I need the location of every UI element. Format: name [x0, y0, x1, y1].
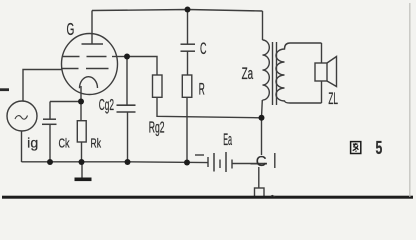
bottom-right tiny squiggle: [271, 195, 275, 196]
svg-text:Cg2: Cg2: [99, 97, 114, 114]
battery Ea: minus mark: [195, 154, 204, 156]
wire: lead down to bottom resistor: [258, 167, 260, 188]
ground bar: [75, 178, 92, 182]
resistor R body: [182, 75, 192, 97]
wire: C top lead: [187, 10, 189, 45]
wire: Ck top lead: [49, 102, 51, 120]
svg-text:ig: ig: [27, 135, 38, 151]
node: Rk-ground: [79, 159, 85, 165]
node: R-ground: [184, 160, 190, 166]
resistor Rg2 body: [153, 75, 163, 97]
svg-text:ZL: ZL: [328, 90, 338, 108]
wire: Ck bottom lead: [49, 124, 51, 162]
node: Ea rail / primary: [259, 115, 265, 121]
CJK glyph 图 drawn as strokes: [351, 142, 361, 154]
speaker ZL body: [315, 63, 327, 81]
speaker ZL leads: [321, 43, 323, 63]
wire: top plate rail: [92, 10, 263, 12]
resistor Rk leads: [80, 102, 82, 121]
resistor Rk body: [77, 121, 86, 142]
capacitor Ck plates: [43, 118, 56, 120]
node: grid: [124, 54, 130, 60]
wire: Cg2 bottom lead: [127, 112, 129, 162]
sine squiggle inside source: [15, 116, 28, 120]
svg-text:R: R: [199, 81, 205, 99]
transformer core: [272, 42, 274, 105]
bottom border line: [2, 196, 413, 199]
battery Ea plates: [207, 157, 209, 167]
tube V1 plate bar: [82, 43, 104, 45]
svg-text:G: G: [67, 19, 75, 39]
svg-text:Za: Za: [242, 65, 254, 83]
svg-text:C: C: [256, 153, 267, 170]
right border faint line: [409, 3, 410, 197]
signal source ig circle: [7, 101, 37, 131]
tube V1 grid2 (dashed): [61, 68, 109, 70]
ground stem: [81, 162, 83, 178]
transformer primary winding Za: [263, 40, 270, 100]
wire: plate lead into tube: [91, 11, 93, 45]
svg-text:Ck: Ck: [59, 135, 70, 150]
capacitor Cg2 plates: [117, 104, 136, 106]
component marks near bottom (C label stroke): [251, 163, 268, 165]
wire: grid node to Rg2: [127, 57, 157, 76]
node: Ck-ground: [47, 159, 53, 165]
wire: R bottom lead (crosses Ea rail): [186, 97, 188, 162]
node: cathode: [78, 99, 84, 105]
tube V1 envelope: [62, 34, 118, 95]
wire: grid2 lead left: [23, 70, 62, 102]
svg-text:C: C: [200, 39, 207, 58]
node: top rail / C: [185, 7, 191, 13]
wire: Rg2 bottom lead + Ea rail: [157, 97, 262, 118]
wire: battery to node: [232, 163, 267, 165]
wire: node down to C? component: [261, 118, 263, 155]
tube V1 grid1 (dashed): [63, 56, 117, 58]
wire: cathode node line: [50, 101, 81, 103]
wire: Cg2 top lead: [126, 57, 128, 106]
wire: cathode lead down: [80, 86, 82, 102]
svg-text:Ea: Ea: [223, 131, 232, 149]
wire: ground rail: [22, 161, 208, 164]
transformer secondary winding: [276, 43, 322, 103]
svg-text:Rg2: Rg2: [149, 120, 165, 137]
tube V1 cathode arc: [79, 77, 97, 89]
capacitor C plates: [181, 43, 196, 45]
speaker ZL cone: [327, 57, 337, 87]
bottom resistor body (cut by border): [255, 188, 265, 197]
wire: source bottom lead: [21, 131, 23, 162]
node: Cg2-ground: [125, 159, 131, 165]
transformer primary lead: [262, 11, 264, 40]
wire: primary bottom lead: [261, 100, 264, 118]
svg-text:Rk: Rk: [91, 135, 102, 150]
wire: grid1 lead to node: [112, 56, 127, 58]
wire: C to R lead: [187, 51, 189, 75]
svg-text:5: 5: [376, 138, 383, 158]
scan artifact: left edge mark: [0, 88, 9, 91]
